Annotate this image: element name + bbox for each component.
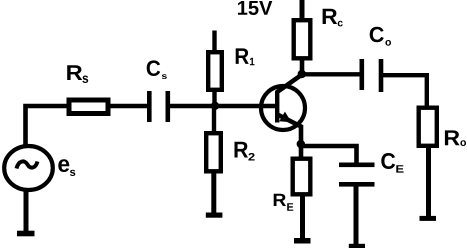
ground (source) — [17, 231, 35, 237]
ground (R2) — [206, 213, 223, 218]
label CE sub E — [396, 165, 403, 172]
sine symbol inside source — [17, 161, 38, 168]
ground (Ro) — [420, 216, 437, 221]
ground (RE) — [294, 238, 311, 244]
wire source top to Rs — [26, 106, 68, 145]
label Ro R — [445, 130, 460, 145]
capacitor CE top plate — [339, 163, 375, 168]
wire emitter node to RE — [299, 145, 304, 159]
wire R1 top stub — [212, 31, 216, 52]
wire R2 top — [212, 106, 216, 132]
transistor Q1 circle — [261, 86, 305, 130]
capacitor Cs left plate — [147, 91, 152, 122]
capacitor Co right plate — [379, 59, 384, 92]
capacitor Co left plate — [360, 59, 365, 90]
wire source bottom to ground — [24, 190, 29, 232]
label Co C — [370, 27, 384, 42]
wire R1 bottom — [212, 91, 216, 106]
resistor R1 — [208, 52, 222, 90]
wire R2 bottom — [211, 173, 216, 214]
label R2 R — [235, 142, 249, 158]
transistor emitter arrowhead — [279, 112, 291, 123]
capacitor CE bottom plate — [339, 182, 375, 187]
label Cs sub s — [162, 74, 167, 79]
label Ro sub o — [460, 140, 466, 146]
label R1 R — [236, 48, 249, 64]
wire CE bottom — [354, 187, 359, 246]
label Rc sub c — [338, 21, 343, 27]
node emitter junction — [297, 140, 305, 148]
label Rc R — [323, 9, 338, 24]
wire Ro bottom — [426, 148, 431, 217]
label RE R — [274, 194, 286, 206]
wire Cs to base — [170, 104, 276, 109]
source es circle — [4, 146, 53, 190]
label Cs C — [147, 60, 161, 76]
label RE sub E — [287, 203, 293, 211]
label 15V — [238, 1, 272, 15]
resistor Rc — [294, 20, 311, 58]
label Rs sub s — [82, 76, 88, 84]
wire emitter node to CE — [301, 146, 357, 163]
wire collector node to Rc — [300, 59, 305, 75]
resistor R2 — [206, 133, 221, 171]
label R2 sub 2 — [248, 153, 254, 161]
label es sub s — [70, 170, 75, 176]
wire Rs to Cs — [111, 104, 148, 109]
label CE C — [381, 153, 395, 169]
node collector junction — [298, 70, 306, 78]
transistor collector line — [277, 75, 303, 93]
resistor RE — [293, 159, 311, 195]
ground (CE) — [349, 244, 365, 248]
wire RE bottom — [300, 196, 305, 239]
resistor Rs — [69, 100, 108, 114]
transistor base bar — [275, 91, 279, 123]
label Rs R — [67, 65, 82, 80]
resistor Ro — [419, 108, 437, 146]
capacitor Cs right plate — [166, 91, 171, 122]
label es e — [58, 159, 69, 172]
node base junction — [211, 102, 219, 110]
wire collector node to Co — [302, 72, 360, 76]
label R1 sub 1 — [250, 58, 255, 65]
wire Co to Ro — [383, 75, 427, 106]
transistor emitter line — [278, 115, 302, 147]
wire Rc top to 15V rail — [300, 0, 305, 18]
label Co sub o — [385, 40, 391, 46]
